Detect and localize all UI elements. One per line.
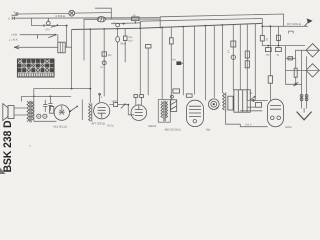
wire earth line — [13, 17, 160, 20]
wire top step — [95, 8, 111, 19]
capacitor 5000 on v117 — [116, 29, 127, 103]
resistor 250 top — [173, 89, 180, 93]
wire v214 — [213, 25, 215, 97]
dial pointer wire with arrow — [14, 46, 58, 49]
wire v84 — [83, 19, 85, 60]
wire v71 — [71, 29, 73, 88]
main HT bus — [72, 23, 262, 29]
mains transformer box — [234, 90, 250, 112]
wire drop to gang — [66, 26, 68, 48]
stub on band line — [37, 35, 39, 39]
resistor on v278 — [276, 26, 280, 45]
pin 5 of V2 — [99, 93, 103, 102]
loudspeaker LS — [3, 104, 14, 121]
svg-text:AB2 (ECH11): AB2 (ECH11) — [165, 128, 181, 131]
wire aerial line — [19, 13, 111, 15]
triode-hexode V4 — [187, 100, 204, 126]
anode feed wire — [240, 110, 262, 112]
output tube V1 — [54, 105, 69, 120]
wire v148 — [147, 48, 149, 95]
bus junction dots — [89, 24, 223, 30]
lamp a — [113, 21, 119, 27]
output line — [262, 45, 305, 47]
svg-text:L.M.K.: L.M.K. — [11, 38, 19, 41]
bottom return wire — [226, 112, 268, 127]
speaker leads — [14, 96, 26, 115]
node mid tap — [123, 23, 125, 25]
svg-text:20μ: 20μ — [266, 54, 271, 57]
svg-text:BSK 238 D: BSK 238 D — [2, 120, 14, 172]
switch S1b — [48, 34, 56, 38]
wire v240 — [239, 24, 241, 90]
svg-text:1kΩ: 1kΩ — [128, 39, 133, 42]
svg-text:250: 250 — [172, 59, 177, 62]
terminal A (aerial) — [12, 11, 19, 15]
capacitor pair 2 — [48, 96, 52, 110]
resistor box tone — [50, 106, 54, 113]
tube V2 — [94, 103, 110, 119]
svg-text:470: 470 — [45, 29, 50, 32]
wire h88 link — [34, 88, 91, 90]
svg-text:100: 100 — [107, 54, 112, 57]
svg-text:5000: 5000 — [120, 42, 126, 45]
capacitor 4u box — [132, 14, 139, 24]
switch rect — [250, 92, 256, 100]
svg-text:AL4 (EL11): AL4 (EL11) — [54, 125, 67, 128]
rectifier tube V5 — [268, 99, 284, 127]
fuse oval F1 — [97, 17, 105, 22]
lamp circle with X — [69, 10, 75, 16]
capacitor pair 1 — [43, 100, 47, 112]
coupling box v148 — [145, 45, 151, 48]
resistor rect — [256, 102, 262, 107]
tuning gang box — [58, 42, 65, 53]
wire v222 — [221, 25, 223, 92]
switch S1a — [51, 24, 59, 27]
capacitor top mid — [186, 94, 192, 97]
wire gang to box — [65, 46, 71, 48]
magic eye — [209, 99, 220, 110]
coupling wire — [110, 104, 134, 115]
wire switch to gang — [57, 35, 59, 43]
svg-text:EZ11: EZ11 — [286, 126, 293, 129]
wire v162 — [161, 27, 163, 99]
wire antenna tap — [32, 18, 67, 26]
wire band line — [20, 34, 57, 36]
svg-text:EBF11: EBF11 — [149, 125, 158, 128]
terminal E (earth) — [8, 17, 14, 21]
heater wires rect — [247, 100, 267, 107]
tone network frame — [34, 89, 56, 122]
stray dot — [29, 145, 31, 147]
pins of V3 — [134, 95, 144, 106]
tube V3 — [131, 105, 147, 121]
field coil — [223, 92, 226, 111]
IF transformer T4 — [158, 100, 170, 123]
bus 2 — [140, 19, 262, 29]
tick on tap — [43, 24, 45, 27]
choke Dr with 470 — [45, 18, 50, 32]
wire to diamond1 — [295, 49, 319, 51]
top link wire — [22, 96, 71, 98]
resistor 20u on v125 — [123, 29, 132, 62]
comps on v233 — [227, 25, 236, 90]
wire v285 — [284, 46, 286, 71]
choke box — [228, 96, 233, 110]
svg-text:5000: 5000 — [112, 100, 118, 103]
svg-text:u.KW.: u.KW. — [11, 34, 18, 37]
resistor 250 blob — [172, 27, 183, 95]
resistor vert right — [294, 58, 297, 84]
speaker diamond 1 — [306, 44, 319, 57]
svg-text:AF7 (EF11): AF7 (EF11) — [92, 122, 106, 125]
wire v255 — [254, 24, 256, 101]
wire v90 — [89, 29, 91, 103]
node at x66.6 — [66, 25, 68, 27]
svg-text:6 008 Ω: 6 008 Ω — [56, 15, 65, 18]
small mark under RV — [289, 31, 294, 33]
matching box — [285, 50, 295, 60]
svg-text:220 V: 220 V — [245, 124, 252, 127]
output transformer T2 — [27, 101, 34, 123]
wire to diamond2 — [285, 69, 319, 71]
electrolytic on v270 — [268, 25, 272, 100]
corner smudge — [0, 168, 6, 175]
svg-text:7kΩ: 7kΩ — [206, 128, 211, 131]
svg-text:A: A — [14, 11, 16, 14]
wire v82 — [81, 100, 83, 120]
svg-text:E: E — [8, 17, 10, 20]
hatched resistor — [170, 95, 176, 111]
pot circle 1 — [37, 114, 41, 118]
wire v194 — [194, 26, 196, 94]
RV supply line — [262, 25, 307, 27]
node rect — [252, 99, 255, 102]
wire heater line — [84, 18, 160, 20]
resistor G — [260, 19, 269, 46]
pot circle 2 — [43, 114, 47, 118]
wire v205 — [204, 26, 206, 100]
capacitor 5000 coupling — [112, 100, 118, 107]
top right bus — [160, 14, 283, 28]
grid arrow V1 — [69, 106, 78, 112]
IF coil left — [89, 103, 92, 121]
svg-text:RV=100k·Ω: RV=100k·Ω — [287, 23, 301, 26]
capacitor 20u under node — [265, 48, 271, 57]
resistors on v247 — [245, 24, 249, 100]
speaker diamond 2 — [306, 64, 319, 77]
volume arrow — [121, 104, 126, 109]
wire mid tap — [111, 22, 140, 25]
svg-text:E12a: E12a — [108, 124, 114, 127]
capacitor 4u under node — [276, 48, 282, 57]
mains plug arrow — [297, 108, 312, 120]
resistor on v171 — [169, 27, 173, 100]
wire v104 — [100, 29, 112, 96]
mains leads — [300, 50, 308, 108]
arrow up RV — [305, 18, 313, 26]
dial scale block — [17, 59, 54, 77]
wire v140 — [139, 21, 141, 94]
mains feed line — [285, 70, 301, 86]
